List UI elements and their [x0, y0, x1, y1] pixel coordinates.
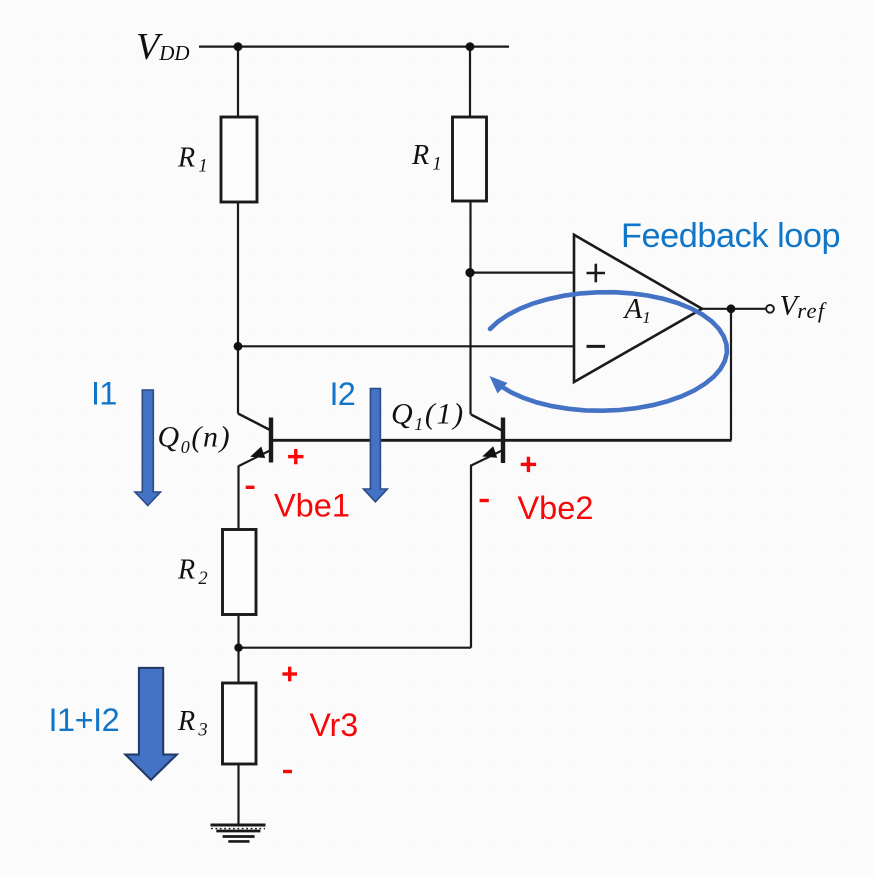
svg-text:Vbe2: Vbe2 — [518, 490, 594, 526]
label Vbe1 minus — [246, 486, 255, 489]
wire left R1 top — [237, 47, 239, 118]
svg-text:I1+I2: I1+I2 — [49, 702, 120, 738]
wire VDD rail — [199, 45, 509, 47]
wire left R1 bottom to Q0 collector — [237, 201, 239, 414]
label Vbe1 plus — [288, 449, 303, 464]
svg-text:I2: I2 — [330, 376, 356, 412]
terminal Vref open circle — [766, 305, 774, 313]
wire junction to Q1 emitter horizontal — [239, 647, 472, 649]
wire Q0 emitter to R2 — [237, 466, 239, 531]
resistor R1 (left) — [221, 117, 257, 202]
annotation arrow I2 — [364, 389, 388, 502]
resistor R3 — [223, 683, 257, 764]
wire right R1 top — [469, 47, 471, 118]
wire right R1 bottom to Q1 collector — [469, 200, 471, 415]
wire op-amp noninverting input — [470, 272, 574, 274]
annotation arrow I1 — [135, 390, 161, 506]
label Vr3 minus — [283, 770, 292, 773]
node R2/R3 junction — [234, 644, 242, 652]
wire op-amp output — [702, 308, 766, 310]
wire R2 to junction node — [237, 615, 239, 649]
annotation feedback loop ellipse arrow — [490, 292, 727, 411]
resistor R2 — [223, 530, 257, 615]
wire Q1 emitter down — [470, 465, 472, 648]
transistor Q0 — [238, 414, 271, 467]
node inverting sense junction — [234, 342, 243, 351]
wire junction to R3 — [237, 648, 239, 683]
label Vbe2 plus — [521, 457, 536, 472]
svg-text:Vbe1: Vbe1 — [274, 488, 350, 524]
node VDD junction right — [466, 42, 475, 51]
svg-text:Feedback loop: Feedback loop — [621, 217, 840, 255]
wire R3 to ground — [237, 764, 239, 825]
svg-text:Vr3: Vr3 — [310, 707, 359, 743]
op-amp A1 — [574, 235, 702, 382]
svg-text:Q1(1): Q1(1) — [391, 398, 465, 434]
node output junction — [727, 304, 736, 313]
label Vr3 plus — [282, 667, 297, 682]
wire feedback vertical — [730, 309, 732, 441]
transistor Q1 — [471, 415, 503, 466]
label Vbe2 minus — [480, 499, 489, 502]
svg-text:Q0(n): Q0(n) — [158, 421, 232, 457]
node VDD junction left — [234, 42, 243, 51]
resistor R1 (right) — [453, 117, 487, 201]
annotation arrow I1+I2 — [125, 668, 177, 780]
ground — [211, 825, 266, 841]
wire base line feedback to bases — [271, 439, 732, 442]
node noninverting input junction — [465, 268, 474, 277]
wire op-amp inverting input — [238, 345, 574, 347]
svg-text:I1: I1 — [91, 376, 117, 412]
